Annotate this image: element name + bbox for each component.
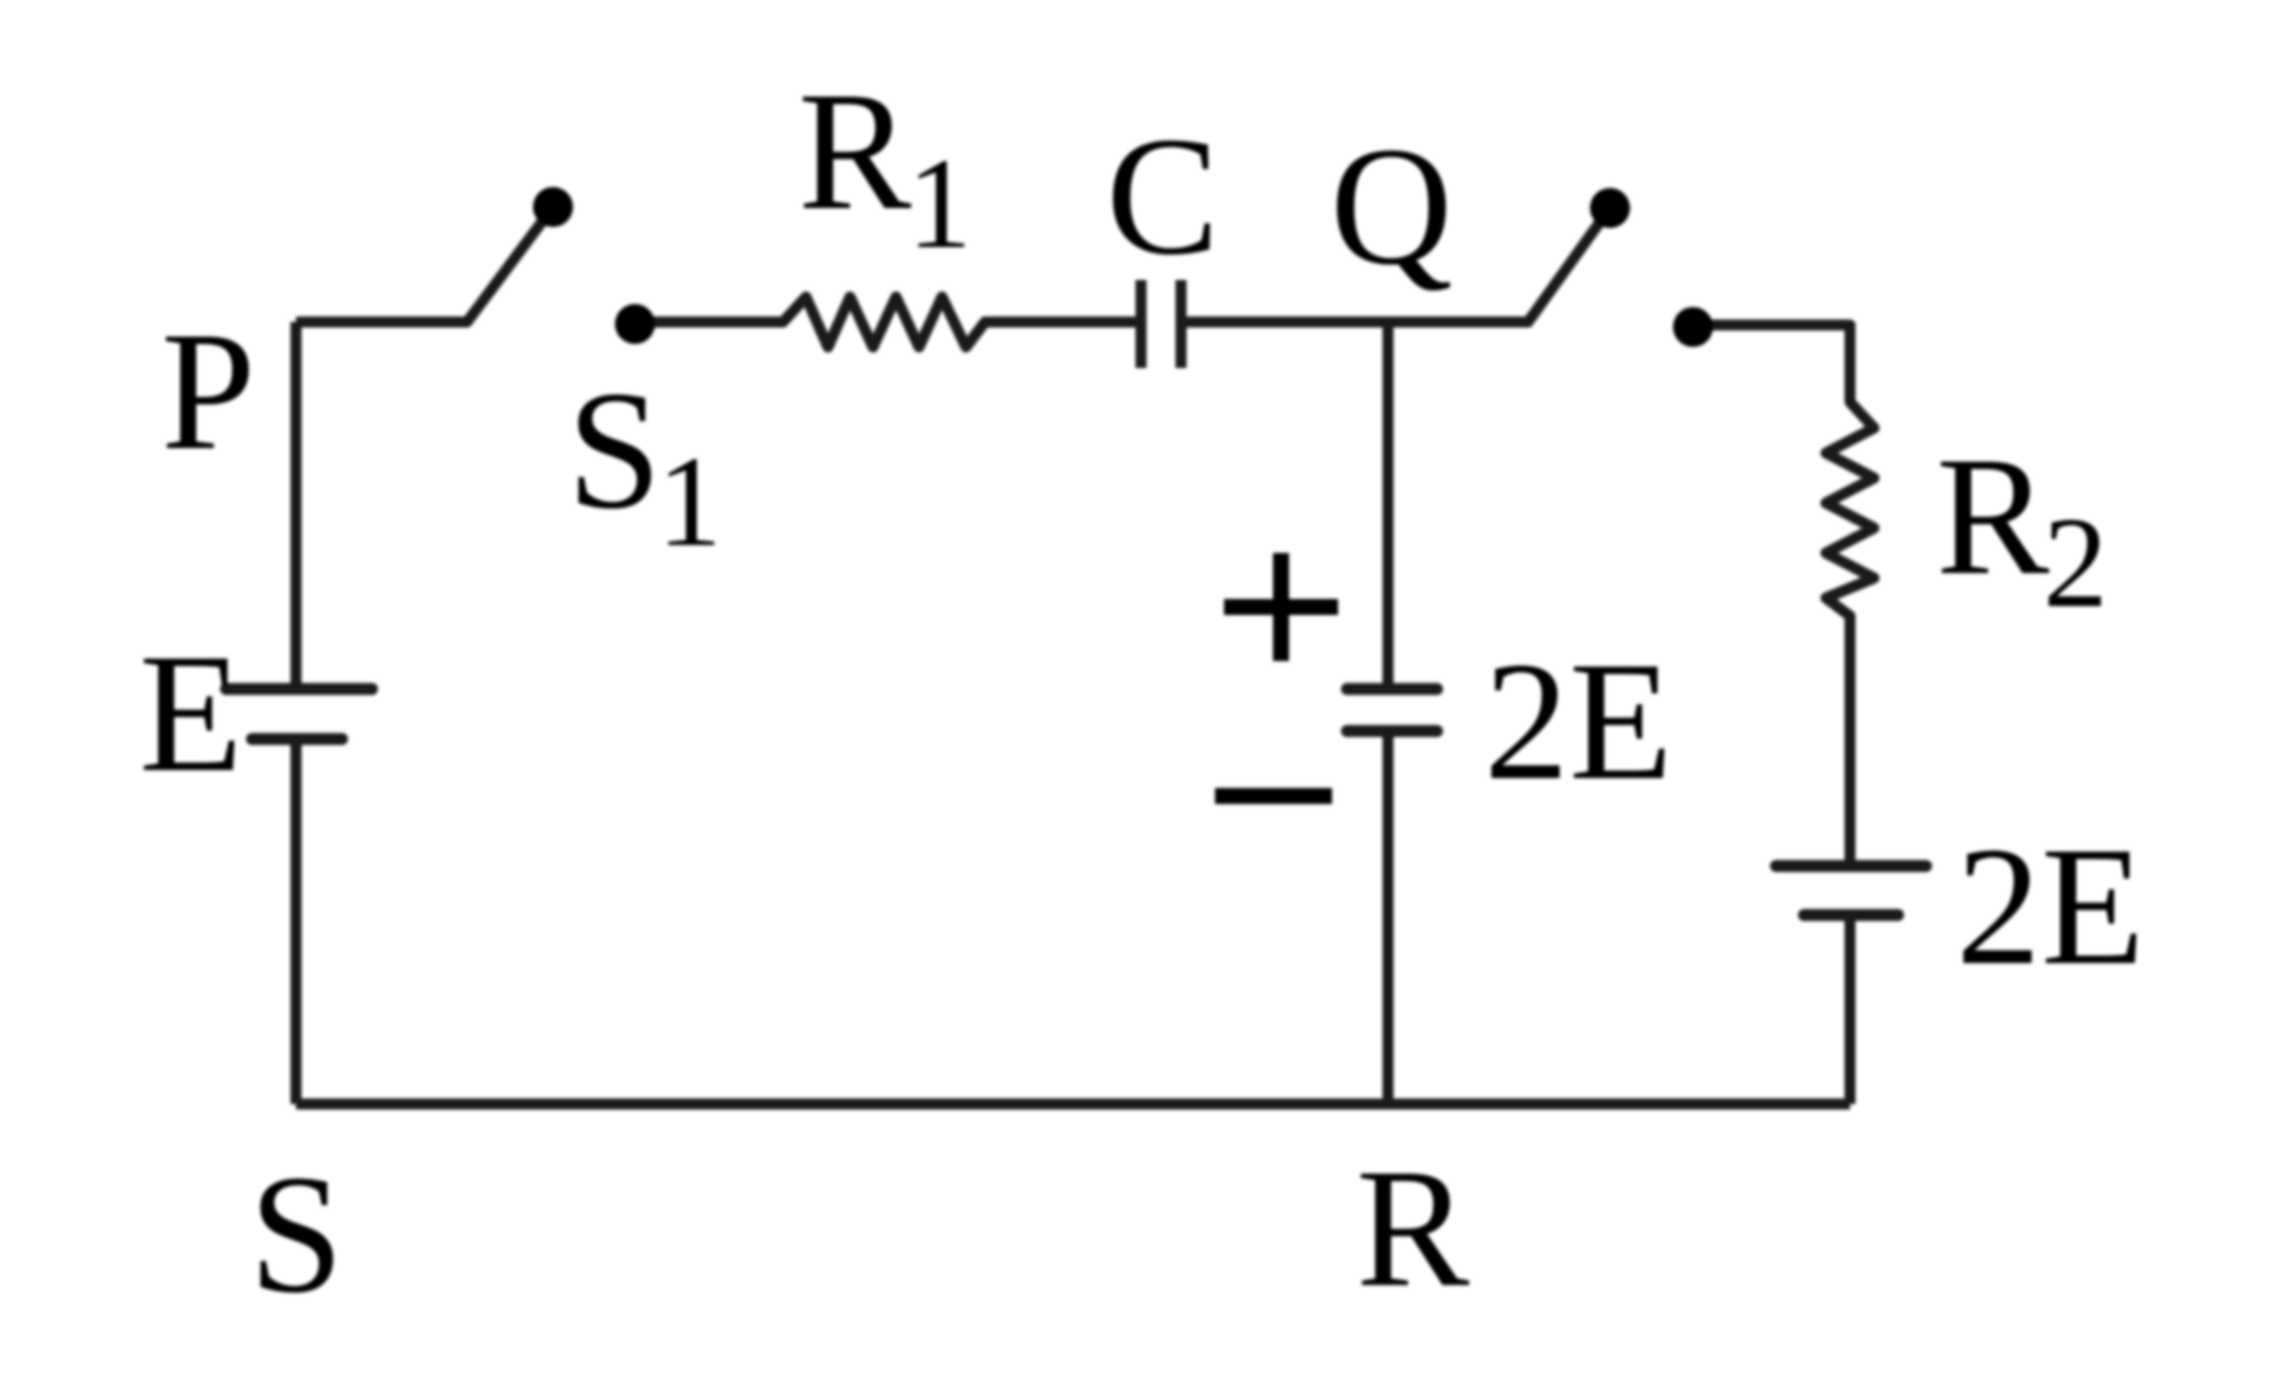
svg-text:S: S: [567, 356, 662, 544]
svg-text:2: 2: [2043, 491, 2108, 635]
svg-text:1: 1: [657, 430, 722, 574]
svg-text:P: P: [161, 297, 256, 485]
svg-text:E: E: [139, 619, 243, 807]
svg-text:R: R: [1356, 1134, 1470, 1322]
svg-text:Q: Q: [1330, 112, 1453, 300]
svg-text:C: C: [1106, 102, 1219, 290]
svg-text:2E: 2E: [1484, 627, 1673, 815]
svg-text:R: R: [1936, 422, 2050, 610]
svg-text:1: 1: [907, 132, 972, 276]
svg-text:2E: 2E: [1956, 812, 2145, 1000]
svg-text:S: S: [249, 1140, 344, 1328]
svg-text:R: R: [798, 57, 912, 245]
